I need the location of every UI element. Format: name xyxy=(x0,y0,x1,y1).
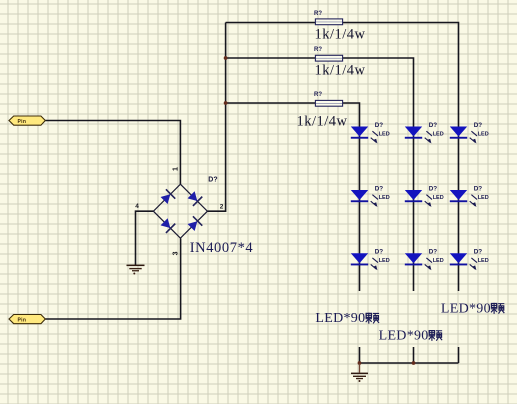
svg-text:LED*90: LED*90 xyxy=(379,328,429,343)
wire: bridge right to bus xyxy=(207,23,225,212)
LED D7 col3 row1 xyxy=(450,122,489,144)
LED D9 col3 row3 xyxy=(450,249,489,271)
svg-text:1k/1/4w: 1k/1/4w xyxy=(315,63,366,79)
wire: column1 lower segment xyxy=(359,347,361,363)
bridge diode bottom-left (points SE) xyxy=(159,217,175,233)
label LED*90颗 left xyxy=(315,311,379,326)
svg-text:1k/1/4w: 1k/1/4w xyxy=(297,113,348,129)
ground bottom xyxy=(351,364,368,383)
svg-text:IN4007*4: IN4007*4 xyxy=(190,240,254,256)
svg-text:R?: R? xyxy=(314,47,322,53)
resistor R2 xyxy=(314,47,366,79)
port Pin top xyxy=(9,116,45,125)
wire: row1 to column3 xyxy=(226,23,459,292)
label LED*90颗 center xyxy=(379,328,443,343)
bridge diode top-right (points SE) xyxy=(186,190,202,206)
LED D3 col1 row3 xyxy=(351,249,390,271)
svg-text:Pin: Pin xyxy=(18,317,27,323)
svg-text:3: 3 xyxy=(173,251,180,255)
svg-text:4: 4 xyxy=(135,203,139,210)
svg-text:R?: R? xyxy=(314,11,322,17)
LED D6 col2 row3 xyxy=(405,249,444,271)
svg-text:LED*90: LED*90 xyxy=(441,301,491,316)
svg-text:1: 1 xyxy=(173,167,180,171)
LED D2 col1 row2 xyxy=(351,185,390,207)
wire: column3 lower segment xyxy=(458,347,460,363)
junction dot bottom col2 xyxy=(412,361,416,365)
port Pin bottom xyxy=(9,315,45,324)
svg-text:1k/1/4w: 1k/1/4w xyxy=(315,27,366,43)
junction dot row3 bus xyxy=(224,101,228,105)
svg-text:R?: R? xyxy=(314,92,322,98)
junction dot bottom col1 xyxy=(358,361,362,365)
wire: port1 to bridge top xyxy=(45,121,180,185)
wire: row3 to column1 xyxy=(226,103,360,291)
LED D4 col2 row1 xyxy=(405,122,444,144)
wire: bridge left to ground xyxy=(136,211,154,265)
wire: port2 to bridge bottom xyxy=(45,238,180,319)
resistor R3 xyxy=(297,92,348,129)
LED D5 col2 row2 xyxy=(405,185,444,207)
wire: bottom rail xyxy=(360,362,459,364)
junction dot row2 bus xyxy=(224,56,228,60)
svg-text:LED*90: LED*90 xyxy=(315,311,365,326)
bridge diode top-left (points NE) xyxy=(159,189,175,205)
LED D8 col3 row2 xyxy=(450,185,489,207)
bridge diode bottom-right (points NE) xyxy=(186,216,202,232)
label LED*90颗 right xyxy=(441,301,504,316)
svg-text:Pin: Pin xyxy=(18,119,27,125)
wire: column2 lower segment xyxy=(413,347,415,363)
svg-text:D?: D? xyxy=(208,177,217,184)
wire: row2 to column2 xyxy=(226,58,414,291)
ground left xyxy=(127,265,145,275)
LED D1 col1 row1 xyxy=(351,122,390,144)
svg-text:2: 2 xyxy=(220,204,224,211)
resistor R1 xyxy=(314,11,366,43)
bridge U1 diamond outline xyxy=(153,184,207,238)
